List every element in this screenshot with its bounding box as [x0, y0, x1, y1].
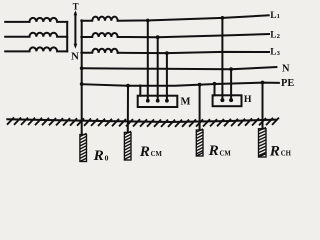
node: PE / motor enclosure stub [139, 84, 142, 87]
node: secondary bus / winding a [80, 19, 83, 22]
PE stub to appliance H enclosure [214, 84, 216, 96]
earth electrode RCH (hatched bar) [259, 127, 267, 157]
node: secondary bus / winding b [80, 36, 83, 39]
node: PE / RCH earthing conductor [261, 81, 265, 85]
drop wire L3 to motor M terminal [166, 53, 168, 101]
wire line L2 [118, 34, 269, 37]
motor M terminal 2 [156, 99, 160, 103]
appliance H terminal 1 [220, 98, 224, 102]
primary star-point bus wire [66, 22, 68, 52]
svg-text:T: T [73, 1, 79, 11]
svg-text:R: R [93, 147, 104, 164]
node: secondary bus / winding c [80, 51, 83, 54]
wire line PE [82, 83, 279, 86]
svg-text:CH: CH [281, 151, 292, 158]
svg-text:0: 0 [105, 153, 109, 162]
node: PE / appliance H enclosure stub [213, 82, 217, 86]
transformer T primary winding W1b [5, 33, 67, 37]
svg-text:N: N [71, 51, 79, 63]
wire line L1 [118, 15, 269, 20]
node: L1 / motor drop [146, 19, 150, 23]
svg-text:R: R [269, 142, 280, 159]
earth hatching strokes [7, 117, 279, 127]
junction dots [80, 16, 265, 103]
svg-text:CM: CM [151, 151, 163, 158]
label pointer arrow T to N [74, 10, 78, 49]
earthing conductor PE to electrode RCM (second) [199, 85, 201, 130]
node: L2 / motor drop [156, 35, 160, 39]
node: L3 / motor drop [165, 51, 169, 55]
transformer T secondary winding W2c [82, 49, 118, 53]
earth / soil surface line with hatching [6, 119, 277, 122]
appliance H enclosure box [213, 95, 242, 106]
transformer T secondary winding W2b [82, 33, 118, 37]
earthing conductor PE to electrode RCH [262, 83, 264, 129]
motor M enclosure box [138, 96, 178, 107]
wire line L3 [118, 52, 269, 53]
svg-text:L2: L2 [270, 30, 280, 40]
svg-text:R: R [208, 142, 219, 159]
motor M terminal 1 [146, 99, 150, 103]
svg-text:L3: L3 [270, 48, 280, 58]
svg-text:N: N [282, 63, 290, 74]
motor M terminal 3 [165, 99, 169, 103]
svg-text:R: R [139, 143, 150, 160]
earthing conductor PE to electrode RCM (first) [127, 86, 129, 133]
node: N / appliance H drop [229, 67, 233, 71]
svg-text:L1: L1 [270, 11, 280, 21]
transformer T secondary winding W2a [82, 17, 118, 21]
node: N line tap on bus [80, 66, 84, 70]
node: PE / RCM earthing conductor [126, 84, 130, 88]
node: PE line tap on bus [80, 82, 84, 86]
drop wire L2 to motor M terminal [157, 37, 159, 100]
earth electrode RCM second (hatched bar) [196, 129, 203, 156]
PE stub to motor M enclosure [139, 86, 141, 96]
paper background [0, 0, 300, 173]
earth electrode RCM first (hatched bar) [124, 131, 131, 160]
svg-text:M: M [181, 97, 191, 108]
svg-text:H: H [244, 94, 252, 105]
secondary star-point / earthing down-conductor bus [81, 21, 83, 135]
appliance H terminal 2 [229, 98, 233, 102]
svg-text:CM: CM [220, 150, 232, 157]
svg-text:PE: PE [281, 78, 294, 89]
transformer T primary winding W1a [5, 18, 67, 22]
drop wire N to appliance H terminal [230, 69, 232, 100]
earth electrode R0 (hatched bar) [80, 133, 87, 161]
node: L1 / appliance H drop [221, 16, 225, 20]
drop wire L1 to appliance H terminal [221, 18, 223, 100]
drop wire L1 to motor M terminal [147, 21, 149, 101]
node: PE / second RCM earthing conductor [198, 83, 202, 87]
transformer T primary winding W1c [5, 47, 67, 51]
wire line N [82, 67, 277, 69]
